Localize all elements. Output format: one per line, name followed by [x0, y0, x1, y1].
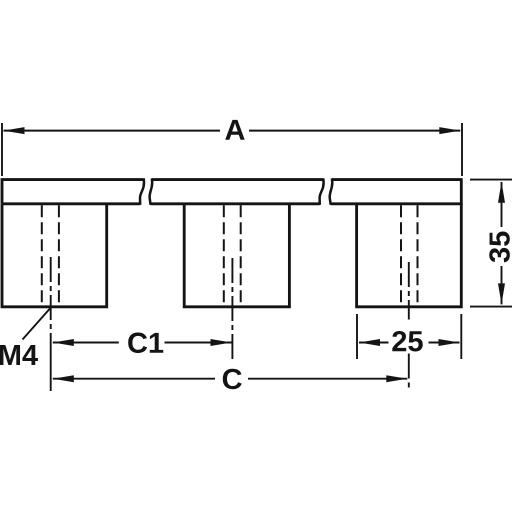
- right post hole dashed lines: [401, 205, 418, 305]
- right post centerline (dash-dot): [408, 262, 410, 390]
- extension line C/C1 left: [50, 333, 52, 391]
- extension line A left: [1, 123, 3, 176]
- dimension line A: [4, 130, 461, 132]
- rail bar segment 2 (middle): [151, 180, 324, 204]
- extension line A right: [461, 123, 463, 176]
- arrowhead A right: [439, 127, 460, 134]
- middle post centerline (dash-dot): [231, 258, 233, 360]
- break symbol 2 right wavy edge: [330, 178, 333, 204]
- label 35 (rotated): [489, 232, 510, 263]
- right post outline: [357, 204, 462, 307]
- arrowhead C left: [53, 375, 74, 382]
- arrowhead 35 up: [498, 182, 505, 203]
- leader line M4: [23, 307, 52, 340]
- label M4: [0, 345, 38, 365]
- middle post outline: [184, 204, 289, 307]
- label 25: [392, 331, 422, 352]
- break symbol 1 left wavy edge: [140, 178, 144, 204]
- dimension line 35: [501, 182, 503, 304]
- extension line 25 left: [356, 314, 358, 359]
- label C1: [128, 333, 163, 354]
- extension line 25 right: [460, 314, 462, 359]
- dimension line C: [53, 378, 408, 380]
- rail bar segment 1 (left): [2, 180, 144, 204]
- middle post hole dashed lines: [224, 205, 241, 305]
- arrowhead C right: [386, 375, 407, 382]
- break symbol 2 left wavy edge: [320, 178, 324, 204]
- left post hole dashed lines: [42, 205, 59, 305]
- arrowhead C1 right: [211, 339, 232, 346]
- break symbol 1 right wavy edge: [150, 178, 153, 204]
- extension line 35 bottom: [470, 306, 512, 308]
- dimension line 25: [359, 342, 460, 344]
- arrowhead 25 left: [359, 339, 380, 346]
- label C: [223, 369, 242, 390]
- left post centerline (dash-dot): [50, 257, 52, 331]
- arrowhead A left: [4, 127, 25, 134]
- arrowhead C1 left: [53, 339, 74, 346]
- label A: [225, 120, 244, 140]
- dimension line C1: [53, 342, 232, 344]
- left post outline: [2, 204, 107, 307]
- rail bar segment 3 (right): [331, 180, 462, 204]
- extension line 35 top: [470, 179, 512, 181]
- arrowhead 25 right: [439, 339, 460, 346]
- arrowhead 35 down: [498, 283, 505, 304]
